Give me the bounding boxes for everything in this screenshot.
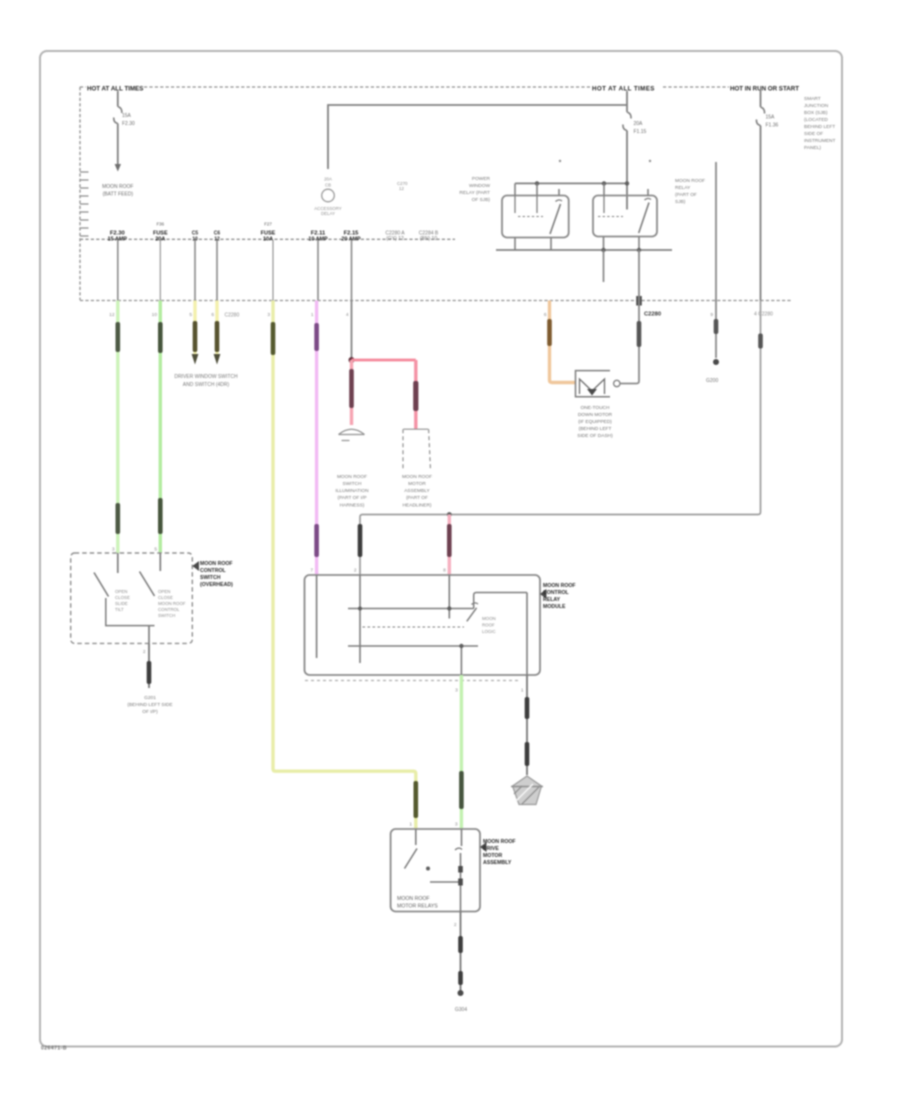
relay K2 pins	[604, 183, 649, 250]
svg-text:DRIVER WINDOW SWITCH: DRIVER WINDOW SWITCH	[174, 374, 238, 380]
node red junction	[349, 357, 355, 363]
svg-text:SIDE OF DASH): SIDE OF DASH)	[577, 433, 613, 439]
svg-text:(BATT FEED): (BATT FEED)	[103, 192, 134, 198]
svg-text:ILLUMINATION: ILLUMINATION	[335, 488, 369, 494]
svg-text:(LOCATED: (LOCATED	[804, 117, 828, 123]
svg-text:10: 10	[152, 312, 158, 318]
node relay feed at fuse drop	[625, 181, 629, 185]
svg-text:MOON ROOF: MOON ROOF	[337, 474, 367, 480]
fuse F1.36 right	[756, 89, 778, 301]
svg-text:HOT AT ALL TIMES: HOT AT ALL TIMES	[592, 86, 655, 93]
wire BLK from relay to motor	[620, 250, 639, 384]
svg-text:BEHIND LEFT: BEHIND LEFT	[804, 124, 835, 130]
svg-text:3: 3	[267, 312, 270, 318]
svg-text:(PART OF: (PART OF	[675, 192, 697, 198]
svg-text:1: 1	[311, 312, 314, 318]
pin labels below bus	[109, 312, 713, 318]
svg-text:G304: G304	[455, 1007, 467, 1013]
svg-text:12: 12	[399, 186, 404, 191]
svg-text:(PART OF: (PART OF	[406, 495, 428, 501]
wire BLK center drop	[351, 301, 353, 361]
node on relay feed line B	[602, 181, 606, 185]
svg-text:20A: 20A	[324, 177, 332, 182]
wire YEL stub 2	[214, 301, 221, 365]
svg-text:F1.15: F1.15	[634, 129, 647, 135]
svg-text:9: 9	[710, 312, 713, 318]
svg-text:INSTRUMENT: INSTRUMENT	[804, 138, 836, 144]
junction box dashed border top	[80, 86, 729, 88]
svg-text:DELAY: DELAY	[321, 211, 335, 216]
svg-text:ROOF: ROOF	[482, 623, 495, 628]
svg-text:ONE-TOUCH: ONE-TOUCH	[581, 405, 610, 411]
wire feeds inside box	[118, 240, 352, 301]
ground G301 symbol	[511, 776, 543, 805]
svg-text:MOON ROOF: MOON ROOF	[402, 474, 432, 480]
svg-text:MOON ROOF: MOON ROOF	[543, 583, 576, 589]
svg-text:5: 5	[154, 547, 157, 553]
svg-text:MOON ROOF: MOON ROOF	[675, 178, 705, 184]
inner fuse panel dashed line	[80, 238, 455, 240]
relay assembly A1 box	[391, 829, 480, 912]
relay lower bus line	[496, 249, 672, 251]
label small C270	[397, 181, 408, 191]
svg-text:MOTOR RELAYS: MOTOR RELAYS	[397, 904, 438, 910]
svg-text:MODULE: MODULE	[543, 604, 566, 610]
wire BLK switch ground lead	[147, 643, 152, 688]
svg-text:2: 2	[143, 649, 146, 655]
svg-text:F2.30: F2.30	[122, 121, 135, 127]
svg-text:POWER: POWER	[472, 176, 491, 182]
svg-text:SWITCH: SWITCH	[158, 613, 175, 618]
label breakout S2	[402, 474, 432, 509]
switch SW1 inner text B	[158, 589, 186, 618]
relay K2 coil and contact	[598, 196, 651, 234]
svg-text:BOX (SJB): BOX (SJB)	[804, 110, 828, 116]
svg-text:WINDOW: WINDOW	[469, 183, 491, 189]
wire ORG to motor	[547, 301, 575, 383]
svg-text:RELAY (PART: RELAY (PART	[459, 190, 490, 196]
svg-text:MOON ROOF: MOON ROOF	[158, 601, 186, 606]
wire BLK short to ground G200	[706, 162, 719, 384]
pin labels module U1	[310, 568, 524, 694]
svg-text:3: 3	[455, 822, 458, 828]
svg-text:MOON ROOF: MOON ROOF	[102, 184, 133, 190]
svg-text:1: 1	[521, 688, 524, 694]
svg-text:HOT IN RUN OR START: HOT IN RUN OR START	[730, 86, 799, 93]
svg-text:ASSEMBLY: ASSEMBLY	[483, 860, 512, 866]
ground label G200 switch	[127, 695, 172, 715]
relay K1 coil and contact	[515, 196, 562, 235]
svg-text:CLOSE: CLOSE	[158, 595, 173, 600]
junction box dashed border bottom	[80, 300, 792, 302]
svg-text:4: 4	[346, 312, 349, 318]
circuit breaker component	[314, 177, 342, 217]
svg-text:(BN) 10: (BN) 10	[420, 236, 437, 242]
flag label switch SW1	[192, 561, 233, 588]
svg-text:SWITCH: SWITCH	[343, 481, 362, 487]
svg-text:2: 2	[454, 922, 457, 928]
fuse F1.15 center	[623, 91, 647, 210]
svg-text:7: 7	[310, 568, 313, 574]
svg-text:MOON: MOON	[482, 616, 496, 621]
svg-text:LOGIC: LOGIC	[482, 629, 496, 634]
wire LT GRN/BLK long route to bottom	[271, 301, 418, 829]
svg-text:4 C2280: 4 C2280	[754, 312, 773, 318]
svg-text:HOT AT ALL TIMES: HOT AT ALL TIMES	[87, 86, 143, 93]
svg-text:SJB): SJB)	[675, 199, 686, 205]
svg-text:CONTROL: CONTROL	[543, 590, 569, 596]
label splice S1	[335, 474, 369, 509]
flag label module U1	[540, 583, 576, 610]
svg-text:HARNESS): HARNESS)	[340, 503, 365, 509]
wire LT GRN left long	[116, 301, 121, 554]
pin labels relay assembly A1	[409, 822, 458, 929]
svg-text:SIDE OF: SIDE OF	[804, 131, 823, 137]
svg-text:5: 5	[189, 312, 192, 318]
wire corner feed to circuit breaker	[328, 105, 627, 169]
wire BLK bottom ground lead	[458, 912, 464, 997]
wire RED drop to splice	[349, 360, 354, 425]
svg-text:3: 3	[112, 547, 115, 553]
wire GRN second	[158, 301, 163, 554]
svg-text:C2280: C2280	[644, 312, 661, 318]
node lower bus A	[601, 248, 605, 252]
svg-text:F27: F27	[264, 222, 272, 227]
label left of relay K1	[459, 176, 490, 203]
svg-text:(OVERHEAD): (OVERHEAD)	[200, 582, 233, 588]
wire RED horizontal	[352, 359, 416, 362]
svg-text:026471-B: 026471-B	[41, 1046, 67, 1052]
junction box dashed border left	[79, 87, 81, 300]
fuse row label F27	[261, 222, 276, 243]
svg-text:MOON ROOF: MOON ROOF	[200, 561, 233, 567]
svg-text:(BEHIND LEFT SIDE: (BEHIND LEFT SIDE	[127, 702, 172, 708]
svg-text:OPEN: OPEN	[115, 589, 127, 594]
svg-text:(GY) 12: (GY) 12	[386, 236, 404, 242]
svg-text:15A: 15A	[766, 115, 776, 121]
svg-text:AND SWITCH (4DR): AND SWITCH (4DR)	[183, 382, 230, 388]
wire YEL stub 1	[192, 301, 199, 365]
pin labels switch SW1 top	[112, 547, 158, 656]
svg-text:HEADLINER): HEADLINER)	[402, 503, 431, 509]
relay K1 pins	[515, 183, 559, 250]
relay feed line	[515, 182, 627, 184]
label under yellow stubs	[174, 374, 238, 388]
pin speck K1	[559, 160, 561, 162]
svg-text:MOON ROOF: MOON ROOF	[397, 896, 430, 902]
svg-text:CLOSE: CLOSE	[115, 595, 130, 600]
wire RED drop to motor breakout	[413, 360, 418, 429]
fuse F2.30 left	[102, 91, 135, 198]
svg-text:ASSEMBLY: ASSEMBLY	[404, 488, 430, 494]
svg-text:JUNCTION: JUNCTION	[804, 103, 829, 109]
wire VIO to control module	[314, 301, 319, 576]
fuse row label F2.15	[341, 231, 361, 243]
svg-text:3: 3	[455, 688, 458, 694]
connector mark at bus crossing	[636, 296, 642, 306]
svg-text:6: 6	[211, 312, 214, 318]
node module line1 B	[447, 606, 451, 610]
svg-text:C2280: C2280	[225, 313, 240, 319]
capsule on black drop into module	[358, 524, 363, 557]
wire GRN module to motor relay	[459, 675, 464, 829]
splice symbol S1	[339, 429, 365, 440]
fuse row label C2280 pair A	[385, 231, 405, 243]
svg-text:PANEL): PANEL)	[804, 145, 821, 151]
wire RED drop into module	[447, 515, 452, 576]
node on feed line	[447, 512, 452, 517]
inner fuse panel tick ladder	[80, 172, 89, 236]
svg-text:(PART OF I/P: (PART OF I/P	[337, 495, 366, 501]
svg-text:12: 12	[109, 312, 115, 318]
label right of relay K2	[675, 178, 705, 205]
svg-text:OF I/P): OF I/P)	[142, 709, 158, 715]
relay K2 box	[593, 196, 657, 237]
relay K1 box	[502, 196, 569, 238]
svg-text:10A: 10A	[263, 237, 273, 243]
svg-text:TILT: TILT	[115, 607, 124, 612]
svg-text:G200: G200	[706, 378, 718, 384]
svg-text:2: 2	[354, 568, 357, 574]
fuse row label C5	[192, 231, 199, 243]
motor M1 box	[576, 371, 611, 397]
svg-text:20A: 20A	[634, 121, 644, 127]
svg-text:1: 1	[409, 822, 412, 828]
fuse row label F2.30	[108, 231, 128, 243]
flag label relay assembly A1	[480, 839, 516, 866]
svg-text:OPEN: OPEN	[158, 589, 170, 594]
svg-text:SMART: SMART	[804, 96, 821, 102]
svg-text:F36: F36	[157, 222, 165, 227]
svg-text:SLIDE: SLIDE	[115, 601, 128, 606]
svg-text:RELAY: RELAY	[675, 185, 691, 191]
right column label smart junction box	[804, 96, 836, 151]
svg-text:DOWN MOTOR: DOWN MOTOR	[578, 412, 613, 418]
node relay assembly	[426, 867, 430, 871]
svg-text:(BEHIND LEFT: (BEHIND LEFT	[579, 426, 612, 432]
node lower bus B	[637, 248, 641, 252]
module U1 connector dashes	[305, 680, 521, 682]
svg-text:CONTROL: CONTROL	[158, 607, 180, 612]
breakout symbol S2	[403, 429, 431, 470]
stub wire hanging	[603, 250, 605, 282]
fuse row label F2.11	[308, 231, 328, 243]
svg-text:DRIVE: DRIVE	[483, 846, 499, 852]
svg-text:RELAY: RELAY	[543, 597, 561, 603]
svg-text:G201: G201	[144, 695, 156, 701]
fuse row label C2280 pair B	[419, 231, 439, 243]
motor M1 letter	[580, 379, 605, 396]
wire BLK module to ground	[525, 675, 530, 775]
svg-text:(IF EQUIPPED): (IF EQUIPPED)	[578, 419, 612, 425]
module U1 inner text	[482, 616, 496, 634]
capsule on relay-motor wire	[637, 321, 642, 347]
motor M1 terminal	[614, 380, 620, 386]
label motor M1	[577, 405, 613, 439]
svg-text:MOTOR: MOTOR	[483, 853, 502, 859]
svg-text:MOTOR: MOTOR	[408, 481, 426, 487]
node module line2	[459, 644, 463, 648]
svg-text:6: 6	[544, 312, 547, 318]
fuse row label C6	[214, 231, 221, 243]
pin speck K2	[649, 160, 651, 162]
module U1 box	[305, 575, 541, 675]
switch SW1 internal wires	[94, 553, 160, 643]
svg-text:F1.36: F1.36	[766, 123, 779, 129]
module U1 internal wires	[317, 575, 527, 675]
svg-text:OF SJB): OF SJB)	[472, 197, 491, 203]
svg-text:8: 8	[443, 568, 446, 574]
relay assembly A1 internals	[405, 829, 463, 912]
switch SW1 dashed box	[71, 553, 193, 643]
svg-text:CB: CB	[325, 183, 331, 188]
node on relay feed line A	[535, 181, 539, 185]
svg-text:CONTROL: CONTROL	[200, 568, 226, 574]
svg-text:15A: 15A	[122, 113, 132, 119]
fuse row label F36	[153, 222, 168, 243]
switch SW1 inner text A	[115, 589, 130, 612]
relay assembly A1 inner label	[397, 896, 438, 910]
svg-text:MOON ROOF: MOON ROOF	[483, 839, 516, 845]
node module line1 A	[358, 607, 362, 611]
wire long right feed	[360, 301, 763, 576]
svg-text:SWITCH: SWITCH	[200, 575, 221, 581]
